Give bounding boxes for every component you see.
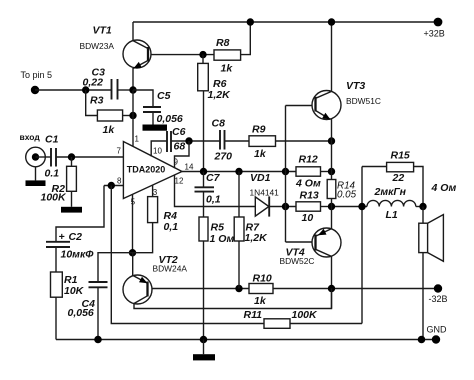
wire R11 right to x362 riser — [290, 323, 362, 325]
svg-text:C1: C1 — [45, 134, 59, 146]
wire C3 right to VT1 emitter node — [118, 89, 134, 91]
svg-text:4 Ом: 4 Ом — [431, 182, 457, 194]
wire R3 right to pin1 line — [123, 115, 133, 117]
svg-text:R9: R9 — [252, 124, 266, 136]
resistor R4 — [152, 185, 154, 197]
svg-text:VD1: VD1 — [250, 172, 271, 184]
wire C7 bottom to R5 top — [203, 192, 205, 217]
svg-text:68: 68 — [174, 141, 186, 153]
resistor R14 — [331, 172, 333, 180]
node R8/R6/VT1 base junction — [199, 51, 206, 58]
wire jack to C1 — [36, 156, 52, 158]
resistor R11 — [264, 319, 290, 329]
svg-text:100K: 100K — [41, 192, 68, 204]
wire VT2 collector run — [134, 289, 332, 309]
wire C4 branch — [98, 253, 133, 282]
svg-text:7: 7 — [117, 147, 122, 156]
svg-text:To pin 5: To pin 5 — [21, 70, 53, 80]
node R12/emitter line junction — [328, 168, 335, 175]
svg-text:R8: R8 — [216, 37, 230, 49]
svg-text:270: 270 — [214, 151, 233, 163]
capacitor C4 — [89, 281, 108, 283]
svg-text:1k: 1k — [103, 124, 116, 136]
wire pin 1 vertical — [132, 90, 134, 147]
wire C6 right to C8 — [171, 140, 220, 142]
transistor VT3 BDW51C — [312, 80, 381, 120]
svg-text:22: 22 — [392, 172, 405, 184]
terminal +32B — [434, 18, 443, 27]
op-amp U1 TDA2020 — [123, 142, 182, 199]
wire C5 to ground bar — [152, 112, 154, 125]
svg-text:GND: GND — [427, 325, 448, 335]
wire To-pin-5 to C3 — [35, 89, 112, 91]
capacitor C5 — [143, 106, 161, 108]
svg-text:R15: R15 — [391, 150, 410, 162]
wire R5 bottom to ground rail — [203, 241, 205, 340]
resistor R1 — [51, 272, 63, 297]
svg-text:BDW52C: BDW52C — [280, 256, 315, 266]
svg-text:VT3: VT3 — [346, 80, 365, 92]
node rail/R8 junction — [247, 18, 254, 25]
svg-text:3: 3 — [153, 188, 158, 197]
wire R4 bottom elbow to pin5 node — [133, 223, 153, 253]
resistor R2 — [71, 157, 73, 166]
wire R7 bottom to VT2 base line — [238, 241, 240, 289]
svg-text:C5: C5 — [157, 90, 171, 102]
svg-text:-32B: -32B — [429, 294, 448, 304]
node R7/output line junction — [235, 168, 242, 175]
svg-text:TDA2020: TDA2020 — [127, 165, 166, 175]
wire R10 right to -32B terminal — [273, 288, 438, 290]
svg-text:R5: R5 — [211, 222, 225, 234]
svg-text:L1: L1 — [386, 209, 398, 221]
capacitor C6 — [166, 131, 168, 152]
svg-text:C2: C2 — [69, 231, 83, 243]
svg-text:BDW24A: BDW24A — [153, 264, 188, 274]
transistor VT1 BDW23A — [80, 25, 152, 69]
transistor VT4 BDW52C — [280, 228, 342, 266]
svg-text:1,2K: 1,2K — [208, 89, 232, 101]
svg-text:0,1: 0,1 — [206, 194, 221, 206]
resistor R15 — [362, 166, 387, 168]
svg-text:R10: R10 — [253, 273, 272, 285]
node VD1/base-riser junction — [282, 203, 289, 210]
svg-text:0,1: 0,1 — [164, 221, 179, 233]
node pin5/R4/C4 junction — [129, 249, 136, 256]
node C3/VT1 emitter junction — [129, 86, 136, 93]
resistor R7 — [238, 172, 240, 218]
wire R2 to ground bar — [71, 191, 73, 207]
svg-text:BDW23A: BDW23A — [80, 41, 115, 51]
node VT4 collector/-32B line junction — [328, 285, 335, 292]
capacitor C7 — [203, 172, 205, 188]
svg-text:0,22: 0,22 — [83, 77, 104, 89]
capacitor C2 electrolytic — [46, 241, 70, 243]
node R3/pin1 junction — [129, 112, 136, 119]
wire +32V top rail — [133, 21, 438, 23]
wire C5 branch — [133, 90, 153, 107]
resistor R3 — [86, 90, 98, 116]
svg-text:C8: C8 — [212, 118, 226, 130]
svg-text:+32B: +32B — [424, 28, 445, 38]
wire riser R15-left/L1 to R11 line — [361, 167, 363, 324]
svg-text:10мкФ: 10мкФ — [61, 249, 95, 261]
wire VT1 emitter stem — [132, 68, 134, 90]
wire R12 right to emitter line — [321, 171, 332, 173]
node pin8/feedback junction — [108, 182, 115, 189]
wire VT2 base to R7/R10 — [148, 288, 250, 290]
wire VT3 base — [286, 105, 316, 107]
terminal -32B — [434, 284, 442, 292]
wire VT4 base — [286, 241, 316, 243]
terminal To pin 5 — [31, 86, 39, 94]
resistor R5 — [199, 217, 208, 241]
node R7/VT2 base junction — [235, 285, 242, 292]
wire pin 5 stem — [132, 195, 134, 253]
wire VT4 collector stem — [331, 256, 333, 308]
wire VT1 collector stem — [132, 22, 134, 41]
resistor R9 — [249, 136, 276, 147]
capacitor C1 — [50, 148, 52, 167]
wire output pin 14 line — [182, 171, 296, 173]
wire L1 to speaker node — [416, 206, 423, 208]
svg-text:0,056: 0,056 — [157, 113, 183, 125]
node output/C7 junction — [200, 168, 207, 175]
svg-text:1 Ом: 1 Ом — [210, 233, 235, 245]
node R3 branch junction — [82, 86, 89, 93]
svg-text:R11: R11 — [244, 309, 263, 321]
capacitor C8 — [219, 130, 221, 150]
node output/base-riser junction — [282, 168, 289, 175]
node C6/pin9 junction — [185, 137, 192, 144]
ground bar under R2 — [61, 207, 82, 213]
node R9/VT3 emitter junction — [328, 137, 335, 144]
transistor VT2 BDW24A — [123, 254, 187, 304]
ground main symbol — [203, 340, 205, 355]
wire pin 12 elbow to VD1 line — [175, 175, 256, 207]
wire VT3 emitter stem — [331, 119, 333, 172]
wire bases riser VT3-VT4 — [285, 106, 287, 243]
svg-text:1k: 1k — [221, 63, 234, 75]
svg-text:0.1: 0.1 — [45, 168, 60, 180]
resistor R13 — [296, 202, 321, 211]
wire VD1 cathode to R13 — [269, 206, 296, 208]
ground bar under jack — [26, 180, 46, 186]
svg-text:2мкГн: 2мкГн — [374, 186, 407, 198]
inductor L1 — [367, 200, 416, 206]
node R2 branch junction — [68, 153, 75, 160]
wire pin8 elbow down to C2 — [56, 186, 104, 242]
wire feedback vertical pin8 to R11 line — [111, 186, 264, 324]
svg-text:вход: вход — [20, 132, 41, 142]
wire pin 9 elbow — [175, 141, 190, 168]
svg-text:1,2K: 1,2K — [245, 232, 269, 244]
svg-text:4 Ом: 4 Ом — [295, 178, 321, 190]
svg-text:0.05: 0.05 — [337, 190, 357, 201]
resistor R10 — [249, 284, 273, 294]
svg-text:1k: 1k — [254, 295, 267, 307]
resistor R12 — [296, 167, 321, 176]
wire R9 right to VT3 emitter line — [276, 140, 332, 142]
wire R6 bottom down to output line (crosses C8 line) — [203, 91, 205, 172]
terminal GND — [432, 335, 440, 343]
wire VT2 emitter stem — [132, 253, 134, 276]
node C4/ground rail junction — [94, 336, 102, 344]
node speaker/ground rail junction — [418, 336, 426, 344]
wire R8 right to top rail — [241, 22, 251, 55]
capacitor C3 — [111, 79, 113, 100]
svg-text:10: 10 — [302, 212, 314, 224]
svg-text:1: 1 — [135, 135, 140, 144]
wire VT1 base to R8/R6 node — [148, 54, 214, 56]
svg-text:C7: C7 — [206, 172, 221, 184]
wire L1 line from R13 node — [332, 206, 368, 208]
wire C1 to pin 7 — [56, 156, 123, 158]
node L1/R15-left junction — [358, 203, 365, 210]
svg-text:10: 10 — [153, 147, 162, 156]
svg-text:12: 12 — [175, 177, 184, 186]
node speaker/R15-right junction — [419, 203, 426, 210]
resistor R8 — [214, 50, 241, 60]
svg-text:BDW51C: BDW51C — [346, 96, 381, 106]
resistor R6 — [202, 55, 204, 64]
svg-text:10K: 10K — [64, 285, 85, 297]
ground bar under C5 — [143, 125, 168, 131]
svg-text:+: + — [59, 231, 65, 243]
svg-text:VT1: VT1 — [93, 25, 112, 37]
node rail/VT3 junction — [328, 18, 335, 25]
svg-text:R13: R13 — [300, 190, 319, 202]
svg-text:0,056: 0,056 — [68, 307, 94, 319]
svg-text:C6: C6 — [172, 126, 186, 138]
wire R13 right to emitter line — [321, 206, 332, 208]
wire C4 bottom to ground rail — [97, 287, 99, 339]
wire R1 to bottom rail — [55, 297, 57, 339]
wire C8 to R9 — [225, 140, 250, 142]
node R5/ground rail junction — [200, 336, 208, 344]
svg-text:8: 8 — [117, 177, 122, 186]
wire R15 right leg — [414, 167, 423, 207]
wire C2 to R1 — [55, 247, 57, 272]
wire bottom rail — [56, 339, 436, 341]
svg-text:R12: R12 — [299, 154, 318, 166]
wire pin 8 — [104, 185, 123, 187]
svg-text:1k: 1k — [254, 148, 267, 160]
svg-text:1N4141: 1N4141 — [250, 188, 280, 198]
svg-text:R3: R3 — [90, 95, 104, 107]
diode VD1 — [255, 197, 269, 216]
wire VT3 collector stem — [331, 22, 333, 92]
svg-text:100K: 100K — [292, 309, 319, 321]
wire pin 10 to C6 — [151, 141, 167, 157]
node R13/R14/L1 junction — [328, 203, 335, 210]
wire VT4 emitter stem — [331, 207, 333, 230]
svg-text:14: 14 — [185, 163, 194, 172]
